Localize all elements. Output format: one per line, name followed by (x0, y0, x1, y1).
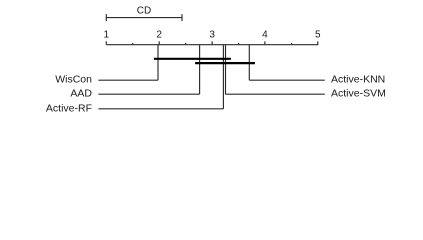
svg-text:4: 4 (262, 30, 268, 41)
Active-KNN rank vertical (248, 45, 250, 80)
CD bracket left end tick (105, 14, 107, 21)
CD label (137, 6, 151, 17)
svg-text:Active-KNN: Active-KNN (331, 74, 385, 86)
axis line (106, 44, 318, 46)
CD bracket right end tick (181, 14, 183, 21)
CD bracket line (106, 17, 182, 19)
label WisCon (55, 74, 92, 86)
WisCon label line (98, 79, 158, 81)
clique bar upper (WisCon..Active-SVM) (154, 58, 231, 60)
svg-text:Active-RF: Active-RF (46, 102, 92, 114)
minor tick 2.5 (185, 43, 187, 45)
label AAD (70, 88, 92, 100)
axis tick label 3 (209, 30, 215, 41)
axis tick label 4 (262, 30, 268, 41)
label Active-KNN (331, 74, 385, 86)
axis tick label 5 (315, 30, 321, 41)
major tick 3 (211, 41, 213, 44)
Active-SVM rank vertical (225, 45, 227, 94)
svg-text:Active-SVM: Active-SVM (331, 88, 386, 100)
svg-text:5: 5 (315, 30, 321, 41)
minor tick 4.5 (291, 43, 293, 45)
svg-text:CD: CD (137, 6, 151, 17)
minor tick 3.5 (238, 43, 240, 45)
AAD label line (98, 93, 199, 95)
clique bar lower (AAD..Active-KNN) (195, 62, 255, 64)
major tick 5 (317, 41, 319, 44)
major tick 4 (264, 41, 266, 44)
major tick 1 (105, 41, 107, 44)
major tick 2 (158, 41, 160, 44)
Active-KNN label line (249, 79, 324, 81)
AAD rank vertical (199, 45, 201, 94)
axis tick label 1 (104, 30, 110, 41)
minor tick 1.5 (132, 43, 134, 45)
Active-RF rank vertical (222, 45, 224, 109)
svg-text:1: 1 (104, 30, 110, 41)
Active-SVM label line (226, 93, 325, 95)
svg-text:AAD: AAD (70, 88, 92, 100)
label Active-RF (46, 102, 92, 114)
svg-text:2: 2 (156, 30, 162, 41)
WisCon rank vertical (157, 45, 159, 80)
axis tick label 2 (156, 30, 162, 41)
svg-text:3: 3 (209, 30, 215, 41)
svg-text:WisCon: WisCon (55, 74, 92, 86)
label Active-SVM (331, 88, 386, 100)
Active-RF label line (98, 108, 223, 110)
